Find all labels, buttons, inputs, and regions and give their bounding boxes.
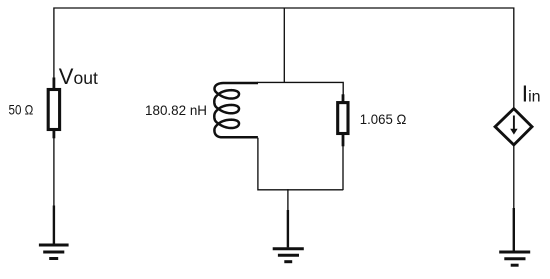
svg-text:50 Ω: 50 Ω (9, 102, 34, 118)
svg-text:1.065 Ω: 1.065 Ω (360, 111, 407, 127)
svg-text:180.82 nH: 180.82 nH (145, 102, 207, 118)
svg-text:Vout: Vout (59, 64, 98, 89)
